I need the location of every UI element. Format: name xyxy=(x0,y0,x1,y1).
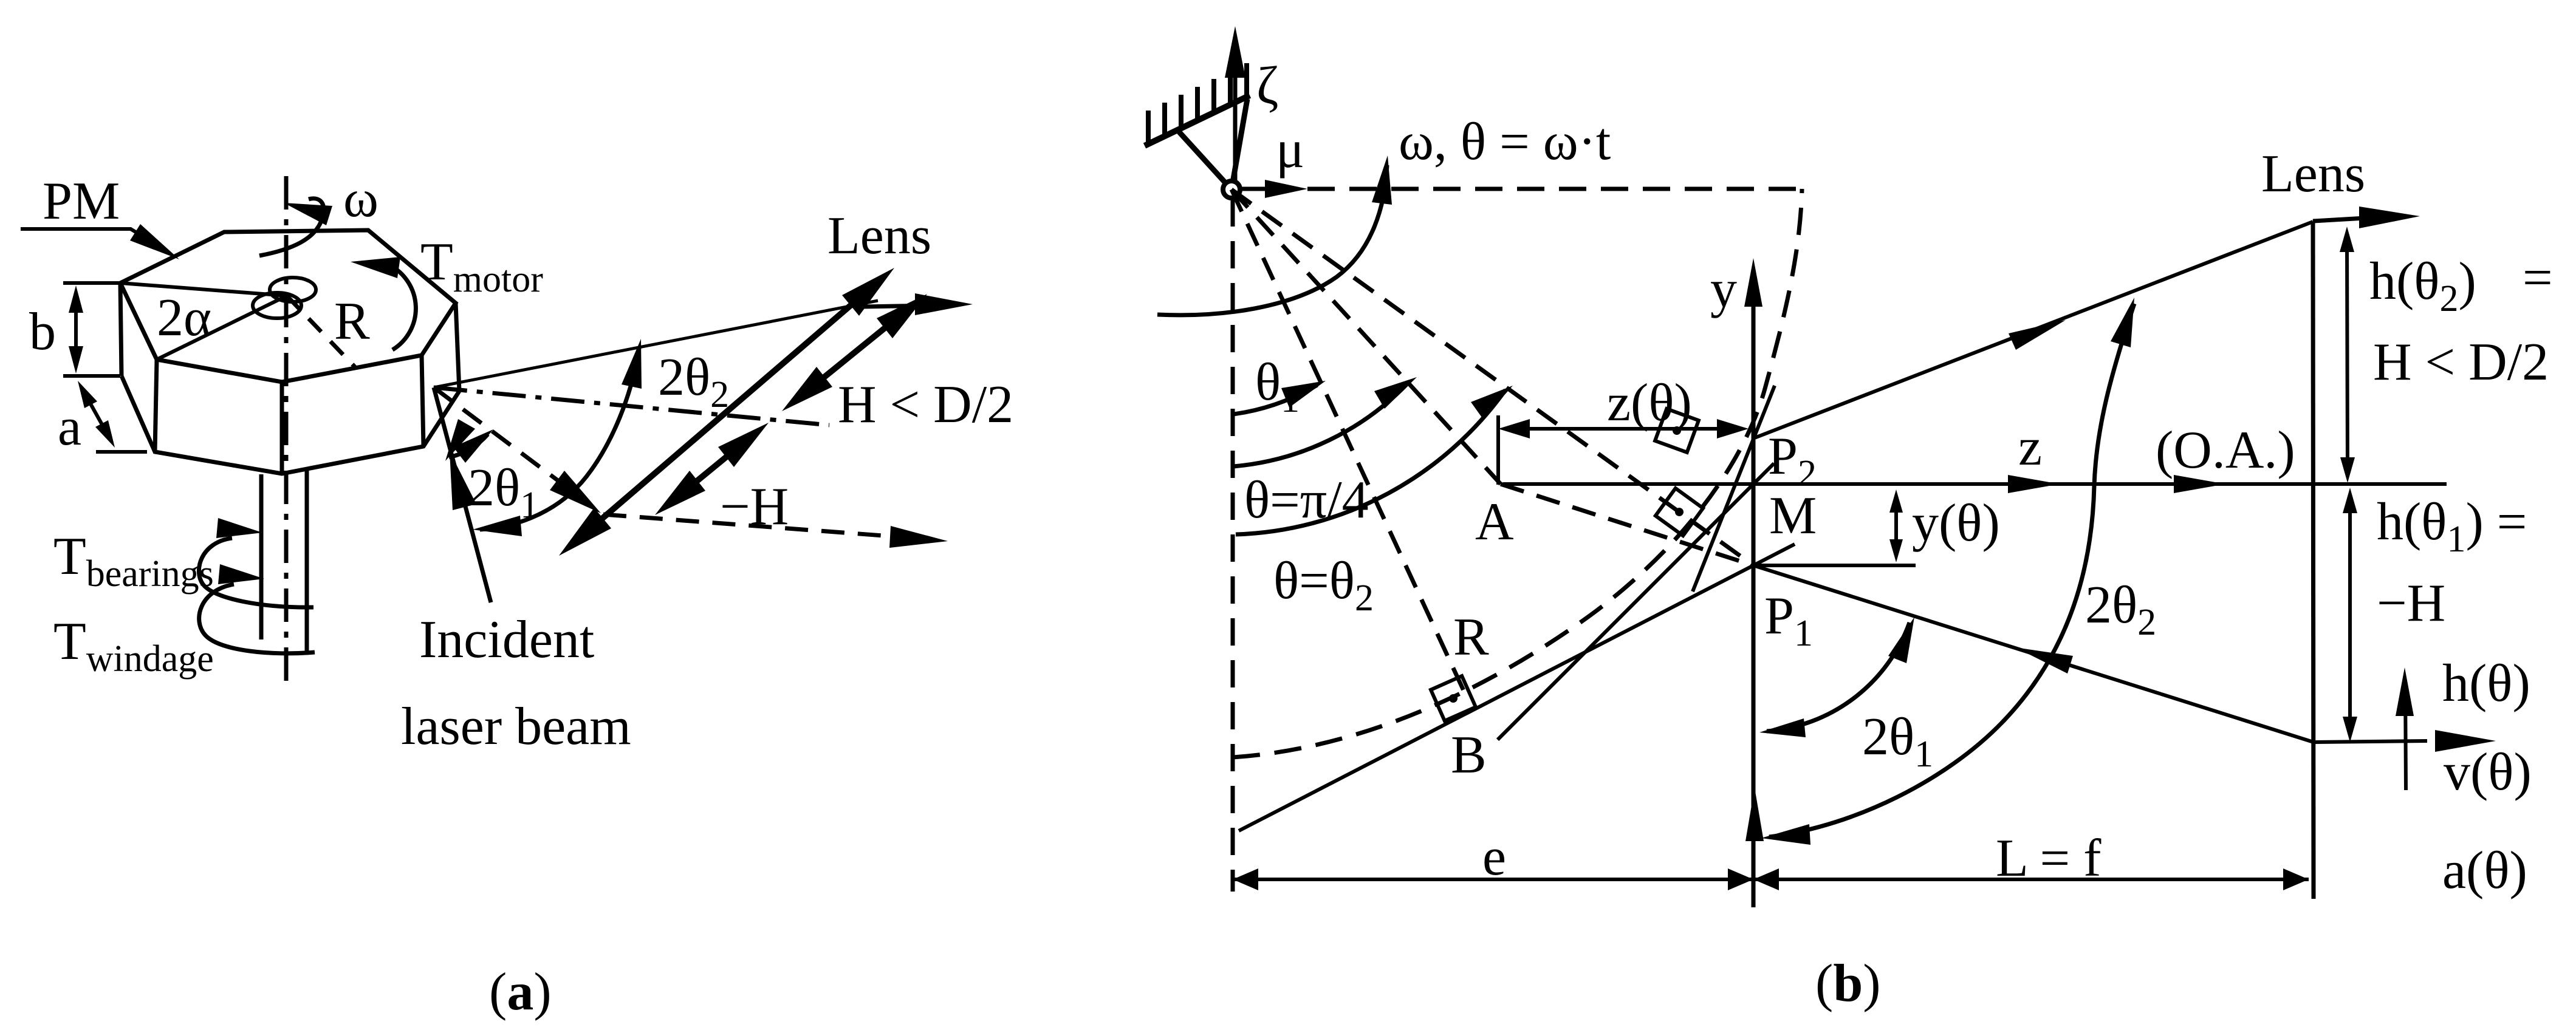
arc theta-1 xyxy=(1233,385,1317,414)
svg-text:a: a xyxy=(58,398,81,457)
dashed mirror-locus curve xyxy=(1233,189,1802,757)
arc 2-theta-2 (fig b) xyxy=(1769,304,2134,837)
lower ray P1 to lens xyxy=(1753,565,2314,742)
svg-text:z: z xyxy=(2018,418,2042,477)
arc 2-theta-2 (fig a) xyxy=(480,348,639,530)
svg-text:b: b xyxy=(29,302,56,361)
dimension z(theta) xyxy=(1496,415,1500,485)
svg-text:y: y xyxy=(1710,260,1737,319)
prism bottom edges xyxy=(122,376,459,474)
reflected ray position-1 dashed with arrow xyxy=(434,387,577,495)
wall hatching xyxy=(1145,95,1250,146)
arc theta=pi/4 xyxy=(1233,381,1410,466)
dashed vertical from pivot xyxy=(1231,199,1235,892)
torque T_bearings arc xyxy=(199,538,313,607)
dashed ray theta-1 to B xyxy=(1231,189,1468,700)
svg-text:θ=π/4: θ=π/4 xyxy=(1244,471,1369,530)
svg-text:Incident: Incident xyxy=(419,610,594,669)
svg-text:ω: ω xyxy=(343,169,379,228)
perpendicular square middle xyxy=(1656,488,1703,536)
prism vertical edges xyxy=(120,283,122,376)
dashed line A to P1 xyxy=(1501,484,1753,565)
dimension a xyxy=(96,450,147,454)
svg-text:M: M xyxy=(1769,486,1817,545)
svg-text:L = f: L = f xyxy=(1996,829,2102,888)
y axis xyxy=(1752,273,1756,907)
svg-text:ζ: ζ xyxy=(1256,56,1278,115)
lens bottom horizontal and v(theta) arrow xyxy=(2314,741,2427,742)
svg-text:h(θ): h(θ) xyxy=(2442,654,2530,713)
incident laser beam arrow xyxy=(434,387,491,602)
svg-text:R: R xyxy=(1453,608,1489,667)
svg-text:laser beam: laser beam xyxy=(401,697,631,756)
radius R dashed line xyxy=(287,296,355,367)
h(theta) up arrow xyxy=(2405,680,2406,790)
svg-text:H < D/2: H < D/2 xyxy=(2373,333,2549,392)
dashed horizontal from pivot xyxy=(1307,187,1802,191)
facet line at position 2 through P2 xyxy=(1693,386,1775,592)
dashed ray theta-2 to P1 xyxy=(1231,189,1753,565)
svg-text:=: = xyxy=(2523,248,2553,307)
arc omega-theta xyxy=(1157,165,1387,315)
rotation axis dash-dot xyxy=(284,176,289,683)
lens plane vertical xyxy=(2313,222,2314,899)
svg-text:H < D/2: H < D/2 xyxy=(838,375,1013,434)
dimension H lower xyxy=(2348,500,2352,729)
2-alpha wedge lines xyxy=(120,283,287,296)
facet tangent line through B and P1 xyxy=(1239,544,1795,831)
upper ray P2 to lens xyxy=(1755,222,2313,438)
pivot support legs xyxy=(1176,129,1231,189)
pivot point xyxy=(1223,181,1240,198)
svg-text:Lens: Lens xyxy=(2261,145,2365,203)
lens aperture double arrow (line A) xyxy=(581,287,872,537)
mu axis arrow xyxy=(1239,187,1281,191)
svg-text:h(θ2): h(θ2) xyxy=(2369,252,2476,319)
dimension e xyxy=(1233,878,1753,881)
arrowhead on y line above dimension xyxy=(1745,788,1764,841)
svg-text:−H: −H xyxy=(2377,574,2445,633)
svg-text:y(θ): y(θ) xyxy=(1912,494,2000,553)
svg-text:R: R xyxy=(334,292,370,351)
dashed ray pi/4 to A xyxy=(1231,189,1501,484)
omega rotation arrow xyxy=(259,199,324,256)
svg-text:ω, θ = ω·t: ω, θ = ω·t xyxy=(1399,112,1611,171)
svg-text:A: A xyxy=(1475,493,1514,551)
motor shaft xyxy=(259,474,264,639)
svg-text:v(θ): v(θ) xyxy=(2444,743,2532,802)
svg-text:Lens: Lens xyxy=(827,206,931,265)
dimension H upper xyxy=(2347,239,2348,470)
shaft hub ellipses xyxy=(270,278,316,302)
dimension y(theta) xyxy=(1894,501,1898,551)
svg-text:PM: PM xyxy=(43,172,120,231)
svg-text:(O.A.): (O.A.) xyxy=(2156,421,2295,480)
dimension b xyxy=(63,281,120,285)
refracted lower dashed arrow xyxy=(603,514,899,537)
svg-text:z(θ): z(θ) xyxy=(1607,373,1692,432)
svg-text:(a): (a) xyxy=(489,963,552,1021)
PM leader arrow xyxy=(21,229,157,245)
svg-text:(b): (b) xyxy=(1815,954,1881,1013)
svg-text:−H: −H xyxy=(720,477,789,536)
refracted horizontal arrow at lens top (fig a) xyxy=(863,305,930,307)
zeta axis arrow xyxy=(1233,58,1238,189)
svg-text:e: e xyxy=(1482,828,1506,887)
polygon mirror PM top face xyxy=(120,230,456,382)
svg-text:2α: 2α xyxy=(157,288,211,347)
-H measure double arrow xyxy=(676,440,747,498)
arc 2-theta-1 (fig b) xyxy=(1767,622,1910,731)
svg-text:μ: μ xyxy=(1276,120,1304,179)
perpendicular square top xyxy=(1655,409,1699,452)
svg-text:B: B xyxy=(1451,726,1487,785)
svg-text:a(θ): a(θ) xyxy=(2442,841,2527,900)
optical axis dash-dot (fig a) xyxy=(434,387,829,425)
horizontal tick at P1 xyxy=(1753,564,1916,567)
perpendicular square at B xyxy=(1431,676,1476,721)
H<D/2 measure double arrow xyxy=(803,311,906,394)
z axis (O.A.) xyxy=(1503,482,2447,486)
arc theta=theta-2 xyxy=(1236,390,1506,534)
dimension L = f xyxy=(1753,878,2309,881)
arc 2-theta-1 small (fig a) xyxy=(449,434,488,457)
facet line at pi/4 through M xyxy=(1498,463,1774,740)
lens top horizontal arrow xyxy=(2313,217,2376,221)
torque T_motor arc xyxy=(389,265,416,350)
upper scan ray to lens (thin) xyxy=(434,301,878,387)
torque T_windage arc xyxy=(199,584,315,653)
